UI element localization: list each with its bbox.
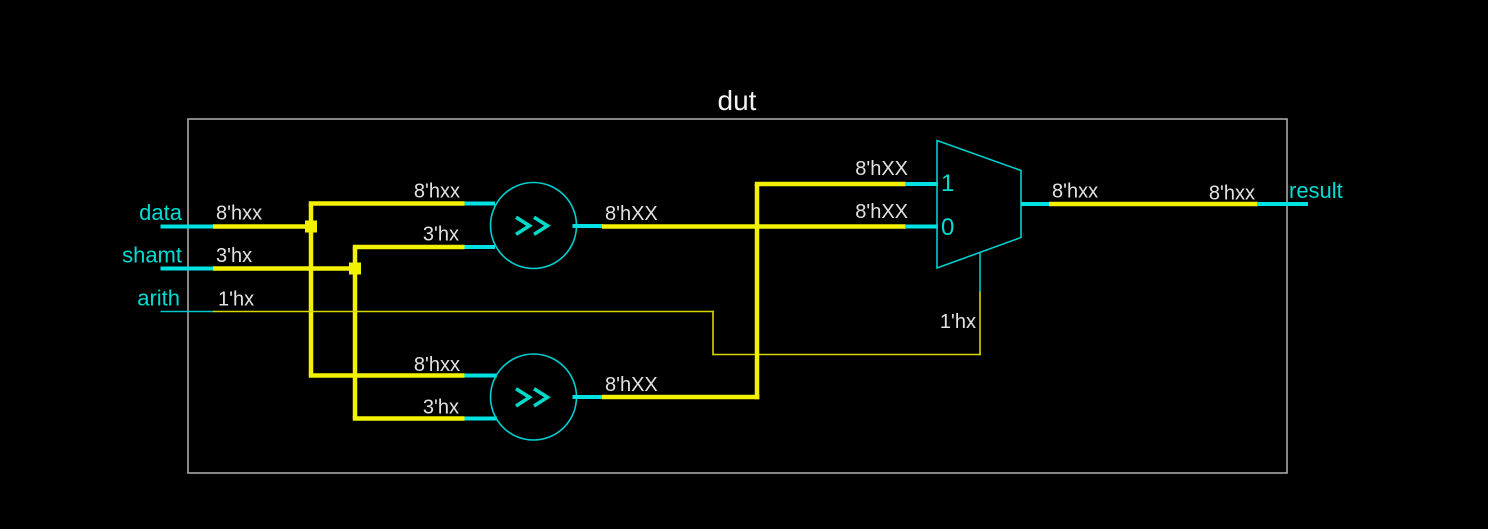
wire lower shifter output vertical to mux row	[755, 184, 760, 399]
stub upper shifter input B	[465, 245, 496, 249]
svg-text:8'hxx: 8'hxx	[1209, 183, 1255, 205]
wire arith horizontal	[213, 311, 714, 313]
svg-text:arith: arith	[137, 286, 180, 311]
wire shamt to lower shifter B	[353, 416, 465, 421]
svg-text:3'hx: 3'hx	[216, 245, 252, 267]
stub mux output	[1021, 202, 1050, 206]
junction shamt trunk	[349, 263, 361, 275]
svg-text:data: data	[139, 200, 183, 225]
svg-text:1'hx: 1'hx	[218, 289, 254, 311]
svg-text:result: result	[1289, 178, 1343, 203]
svg-text:3'hx: 3'hx	[423, 224, 459, 246]
wire upper shifter output to mux input 0	[602, 224, 906, 229]
svg-text:8'hXX: 8'hXX	[855, 201, 908, 223]
stub mux input 0	[905, 225, 938, 229]
svg-text:8'hXX: 8'hXX	[605, 374, 658, 396]
svg-text:dut: dut	[718, 85, 757, 116]
svg-text:3'hx: 3'hx	[423, 397, 459, 419]
wire to mux input 1	[755, 182, 906, 187]
port stub result	[1257, 202, 1308, 206]
mux body trapezoid	[937, 141, 1021, 269]
wire data trunk vertical	[309, 204, 314, 376]
lower shifter symbol >>	[518, 390, 548, 405]
svg-text:8'hXX: 8'hXX	[605, 203, 658, 225]
stub lower shifter input B	[465, 417, 498, 421]
wire shamt horizontal	[213, 266, 358, 271]
wire shamt to upper shifter B	[353, 245, 465, 250]
module dut boundary	[188, 119, 1287, 473]
wire shamt trunk vertical	[353, 247, 358, 419]
svg-text:shamt: shamt	[122, 243, 182, 268]
stub lower shifter output	[573, 395, 604, 399]
lower shifter body	[491, 354, 577, 440]
stub upper shifter output	[573, 224, 604, 228]
junction data trunk	[305, 221, 317, 233]
svg-text:8'hxx: 8'hxx	[414, 354, 460, 376]
upper shifter body	[491, 183, 577, 269]
wire lower shifter output horizontal	[602, 395, 759, 400]
stub upper shifter input A	[465, 202, 496, 206]
wire arith up to mux select	[979, 291, 981, 355]
stub mux input 1	[905, 182, 938, 186]
svg-text:1'hx: 1'hx	[940, 311, 976, 333]
wire data to lower shifter A	[309, 373, 465, 378]
port stub arith	[161, 311, 215, 313]
wire data horizontal	[213, 224, 314, 229]
svg-text:8'hxx: 8'hxx	[1052, 181, 1098, 203]
svg-text:8'hxx: 8'hxx	[216, 203, 262, 225]
port stub data	[161, 225, 215, 229]
wire arith lower horizontal	[713, 354, 981, 356]
mux select stub	[979, 253, 981, 293]
svg-text:1: 1	[941, 170, 954, 197]
wire arith vertical step	[712, 311, 714, 356]
stub lower shifter input A	[465, 374, 498, 378]
wire data to upper shifter A	[309, 201, 465, 206]
port stub shamt	[161, 267, 215, 271]
wire mux output	[1049, 202, 1258, 207]
svg-text:0: 0	[941, 214, 954, 241]
svg-text:8'hxx: 8'hxx	[414, 181, 460, 203]
svg-text:8'hXX: 8'hXX	[855, 158, 908, 180]
upper shifter symbol >>	[518, 218, 548, 233]
